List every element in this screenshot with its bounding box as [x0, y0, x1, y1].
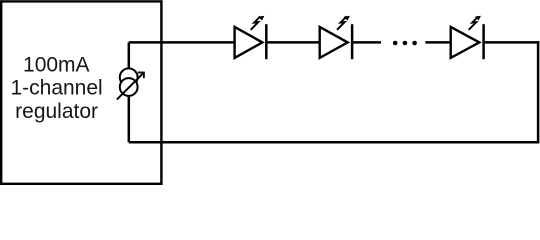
current source I1: [117, 68, 144, 99]
wire: regulator output to LED D1 anode: [129, 41, 235, 44]
svg-text:1-channel: 1-channel: [10, 77, 102, 100]
LED D1: [235, 16, 267, 60]
wire: stub to last LED anode: [425, 41, 450, 44]
regulator box U1: [1, 1, 161, 183]
svg-text:regulator: regulator: [15, 100, 98, 123]
label: 100mA 1-channel regulator: [10, 53, 102, 123]
wire: D2 cathode stub: [352, 41, 381, 44]
LED D2: [320, 16, 352, 60]
wire: left vertical through current source: [128, 42, 131, 142]
svg-text:100mA: 100mA: [23, 53, 90, 76]
node: ellipsis dots (continuation of LED string): [393, 41, 417, 46]
wire: bottom return: [129, 141, 540, 144]
wire: last LED cathode to right vertical: [484, 41, 540, 44]
wire: D1 cathode to D2 anode: [266, 41, 319, 44]
LED Dn: [451, 16, 484, 60]
wire: right vertical from LED string: [537, 41, 540, 142]
